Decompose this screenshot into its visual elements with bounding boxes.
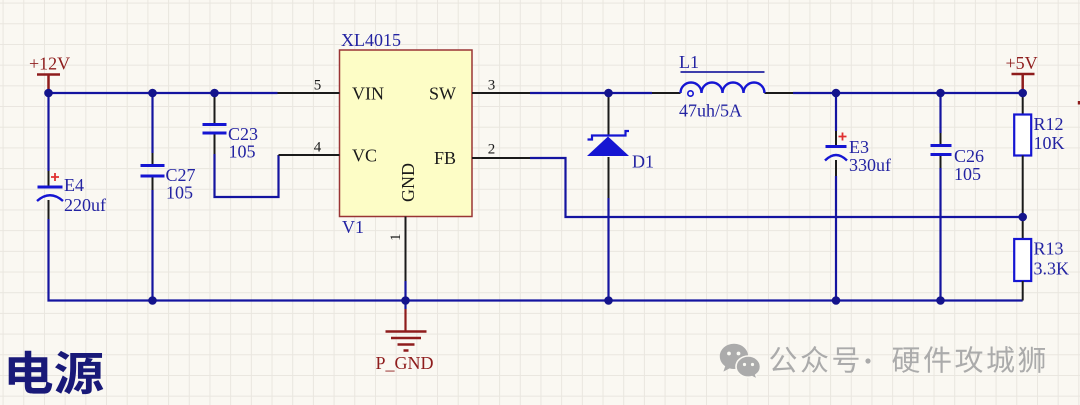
svg-text:105: 105	[954, 164, 981, 184]
wire SW to output	[793, 92, 1023, 94]
resistor R12 10K	[1014, 93, 1064, 217]
ground P_GND	[376, 301, 434, 374]
svg-text:R12: R12	[1034, 114, 1064, 134]
inductor L1 47uh/5A	[652, 52, 793, 121]
svg-text:P_GND: P_GND	[376, 353, 434, 373]
svg-text:2: 2	[488, 142, 496, 158]
svg-text:SW: SW	[429, 84, 456, 104]
red tick right edge	[1078, 101, 1080, 105]
svg-text:105: 105	[229, 142, 256, 162]
capacitor E3 330uf (polarized)	[825, 93, 891, 301]
svg-text:+5V: +5V	[1006, 53, 1038, 73]
svg-text:105: 105	[166, 183, 193, 203]
op-amp U1: regulator IC XL4015 V1 body	[340, 30, 473, 237]
svg-text:FB: FB	[434, 148, 456, 168]
svg-text:XL4015: XL4015	[341, 30, 401, 50]
pin 4 VC	[279, 140, 340, 156]
watermark wechat icon	[720, 344, 761, 380]
pin 2 FB	[472, 142, 530, 159]
svg-text:E3: E3	[849, 137, 869, 157]
title 电源	[9, 351, 104, 394]
svg-text:5: 5	[314, 78, 322, 94]
svg-text:V1: V1	[342, 217, 364, 237]
svg-text:3: 3	[488, 78, 496, 94]
svg-text:10K: 10K	[1034, 133, 1065, 153]
svg-text:+12V: +12V	[29, 54, 70, 74]
capacitor C27 105	[141, 93, 196, 301]
svg-text:R13: R13	[1034, 239, 1064, 259]
svg-text:GND: GND	[398, 163, 418, 202]
capacitor E4 220uf (polarized)	[37, 93, 106, 219]
wire FB net	[530, 158, 1023, 217]
watermark text	[770, 346, 1045, 373]
wire SW net	[530, 92, 652, 94]
svg-text:4: 4	[314, 140, 322, 156]
svg-text:C26: C26	[954, 146, 984, 166]
wire GND pin to rail	[404, 281, 406, 301]
svg-text:1: 1	[388, 234, 404, 242]
capacitor C23 105	[203, 95, 259, 162]
capacitor C26 105	[931, 93, 985, 301]
svg-text:E4: E4	[64, 175, 84, 195]
wire top rail (VIN net)	[49, 92, 278, 94]
pin 3 SW	[472, 78, 530, 94]
svg-text:VIN: VIN	[352, 84, 384, 104]
svg-text:47uh/5A: 47uh/5A	[679, 101, 742, 121]
wire ground rail (bottom bus)	[49, 219, 1023, 301]
power port +5V	[1006, 53, 1038, 93]
pin 1 GND	[388, 217, 406, 282]
svg-text:L1: L1	[679, 52, 699, 72]
svg-text:D1: D1	[632, 152, 654, 172]
IC pin labels	[352, 84, 456, 203]
resistor R13 3.3K	[1014, 217, 1069, 301]
svg-text:3.3K: 3.3K	[1034, 259, 1070, 279]
svg-text:VC: VC	[352, 146, 377, 166]
diode D1 (schottky)	[587, 93, 654, 301]
svg-text:220uf: 220uf	[64, 195, 106, 215]
power port +12V	[29, 54, 70, 94]
svg-text:330uf: 330uf	[849, 155, 891, 175]
wire C23 to VC	[215, 154, 279, 197]
pin 5 VIN	[278, 78, 340, 94]
